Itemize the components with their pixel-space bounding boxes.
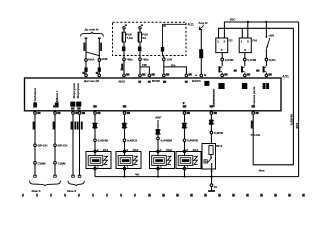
svg-text:0,5Ч: 0,5Ч — [269, 58, 275, 62]
svg-text:ВУ/W: ВУ/W — [152, 79, 160, 83]
svg-text:Форсунки: Форсунки — [76, 83, 80, 98]
inline connector — [263, 66, 267, 72]
svg-text:2: 2 — [160, 148, 162, 152]
junction dot — [265, 21, 267, 23]
off-page arrow label — [198, 21, 208, 25]
svg-text:2: 2 — [97, 148, 99, 152]
svg-text:А11: А11 — [188, 23, 194, 27]
wire colour label — [127, 57, 133, 61]
svg-text:ГЛ: ГЛ — [229, 39, 233, 43]
injector УА4 label — [193, 148, 199, 152]
BT4 ground wire — [210, 169, 213, 190]
ECU internal rotated label col 2 — [55, 90, 59, 106]
svg-text:0,5РЖ: 0,5РЖ — [214, 131, 223, 135]
bus wire labels — [135, 169, 265, 177]
node circle right — [98, 59, 101, 62]
svg-text:0,4ЧБМ: 0,4ЧБМ — [161, 139, 173, 143]
ECU internal rotated label col 1 — [33, 88, 37, 104]
wire colour label — [251, 133, 261, 137]
feed-through pin in fusebox — [163, 25, 165, 27]
svg-text:Главное реле: Главное реле — [252, 86, 256, 107]
relay K2 pin numbers — [241, 40, 249, 53]
svg-text:0,5ЖЧК: 0,5ЖЧК — [290, 114, 294, 125]
switch drop — [265, 22, 267, 36]
relay K1 pin numbers — [217, 40, 225, 53]
injector feed wire H — [182, 114, 188, 151]
svg-text:НАМ: НАМ — [100, 57, 107, 61]
svg-text:ЧБк: ЧБк — [143, 57, 149, 61]
wire colour label — [247, 58, 256, 62]
rotated label outer vertical — [295, 123, 299, 129]
battery 30 line — [224, 22, 298, 38]
svg-text:А51: А51 — [282, 74, 289, 78]
svg-text:+В0: +В0 — [268, 34, 274, 38]
wire B connector labels — [58, 144, 69, 166]
injector УА2 label — [133, 148, 139, 152]
wire B rotated label — [53, 122, 55, 130]
ECU internal rotated label col 3 — [72, 83, 76, 98]
wire A from ECU pin — [34, 114, 37, 177]
wire C rotated label right — [74, 122, 76, 130]
svg-text:СШМ: СШМ — [58, 161, 66, 165]
inline connector — [218, 66, 222, 72]
svg-text:30С: 30С — [230, 17, 236, 21]
fuse FU5 pin — [139, 25, 143, 29]
wire C rotated label — [71, 122, 73, 130]
svg-text:ПЧ: ПЧ — [171, 63, 175, 67]
inline connector — [241, 66, 245, 72]
ignition feed line — [219, 28, 294, 38]
BT4 feed colour label — [214, 131, 223, 135]
injector УА2 — [116, 148, 141, 170]
node circle left — [85, 59, 88, 62]
rotated wire label right — [100, 43, 102, 52]
ECU top pin circles — [85, 74, 268, 77]
wire colour label — [225, 58, 234, 62]
injector feed wire F — [122, 114, 128, 151]
ECU internal marks — [138, 81, 188, 83]
inline connector block on X4 — [199, 49, 203, 58]
svg-text:ЧБк: ЧБк — [127, 57, 133, 61]
svg-text:Дc web N: Дc web N — [85, 27, 100, 31]
svg-text:Инж 8: Инж 8 — [67, 189, 76, 193]
pin letter labels — [195, 73, 207, 77]
svg-text:СШМ: СШМ — [38, 161, 46, 165]
svg-text:ЧН: ЧН — [135, 173, 140, 177]
relay K1 box — [216, 38, 228, 53]
ECU internal connector squares — [218, 83, 269, 89]
wire G colour label — [161, 139, 173, 143]
relay K2 box — [239, 38, 251, 53]
svg-text:УА4: УА4 — [193, 148, 199, 152]
relay K2 pin1 drop — [241, 28, 243, 38]
fuse FU5 body — [138, 29, 141, 47]
svg-text:ПН: ПН — [252, 39, 257, 43]
svg-text:7,5А: 7,5А — [126, 36, 133, 40]
feed-through wire split to two ECU pins — [163, 56, 187, 75]
wire A rotated label — [33, 122, 35, 130]
svg-text:а: а — [195, 73, 197, 77]
injector УА1 — [86, 148, 111, 170]
ECU box A51 — [25, 78, 282, 111]
injector feed wire E — [92, 114, 98, 151]
fuse FU6 pin — [123, 25, 127, 29]
svg-text:0,5ЧБ: 0,5ЧБ — [247, 58, 256, 62]
wire — [98, 61, 100, 67]
ECU bottom pin labels — [37, 112, 258, 114]
svg-text:12Н: 12Н — [166, 57, 172, 61]
svg-text:УА3: УА3 — [166, 148, 172, 152]
svg-text:УА1: УА1 — [103, 148, 109, 152]
fusebox internal partition — [163, 24, 187, 55]
svg-text:МАУС: МАУС — [192, 79, 202, 83]
rotated wire label left — [83, 43, 85, 52]
injector УА4 — [176, 148, 201, 170]
ECU bottom internal pin numbers — [33, 105, 255, 109]
fuse FU6 body — [122, 29, 125, 47]
fusebox label A11 — [188, 23, 194, 27]
svg-text:ПВ: ПВ — [142, 63, 147, 67]
fuse FU6 connector block — [122, 47, 126, 52]
wire F colour label — [127, 139, 137, 143]
wire C from ECU pin — [72, 114, 75, 177]
sensor wire right — [98, 38, 101, 59]
svg-text:NО2: NО2 — [119, 79, 126, 83]
ECU internal rotated label pump — [211, 89, 215, 107]
module BT4 box — [202, 144, 216, 170]
brace under wires C D — [68, 181, 84, 186]
svg-text:УА2: УА2 — [133, 148, 139, 152]
ECU internal pin number blobs — [33, 102, 81, 108]
ECU bottom pin circles — [34, 112, 255, 115]
svg-text:1: 1 — [127, 165, 129, 169]
ECU internal rotated label right — [252, 86, 256, 107]
svg-text:1: 1 — [217, 40, 219, 44]
fuse FU5 connector block — [138, 47, 142, 52]
rotated label on right output — [251, 121, 253, 129]
wire colour label — [166, 57, 175, 67]
svg-text:10: 10 — [214, 185, 218, 189]
injector УА3 ground stub — [157, 170, 159, 177]
svg-text:5: 5 — [244, 48, 246, 52]
svg-text:Бензонасос: Бензонасос — [211, 89, 215, 107]
wire D rotated label — [81, 122, 83, 130]
fuse FU5 value label — [142, 32, 148, 40]
source label AVG — [155, 116, 161, 123]
ECU top pin numbers — [82, 68, 271, 75]
sensor caption — [85, 27, 100, 31]
wire colour labels — [88, 57, 108, 62]
svg-text:2: 2 — [186, 148, 188, 152]
switch blade diagonal — [86, 52, 99, 56]
ignition switch label — [268, 34, 274, 38]
svg-text:0,45ЧБ: 0,45ЧБ — [98, 139, 109, 143]
relay K1 pin2 drop — [247, 22, 249, 38]
svg-text:Асд N: Асд N — [198, 21, 208, 25]
svg-text:ВР-СН: ВР-СН — [38, 144, 49, 148]
svg-text:УЧ-СН: УЧ-СН — [251, 133, 261, 137]
bus junction dots — [124, 176, 213, 178]
fuse FU6 value label — [126, 32, 134, 40]
wire — [244, 73, 246, 75]
ECU internal connector square X4 — [204, 81, 209, 86]
off-page arrow — [199, 25, 203, 29]
outer right vertical 30 line — [298, 22, 300, 177]
ECU internal labels under top pins — [84, 79, 202, 84]
svg-text:0,45РЖ: 0,45РЖ — [187, 139, 198, 143]
BT4 feed wire — [209, 114, 215, 143]
label Inj 8 — [67, 189, 76, 193]
sensor wire left — [85, 38, 88, 59]
ignition switch blade — [266, 36, 270, 49]
svg-text:ВР-СН: ВР-СН — [58, 144, 69, 148]
injector УА1 ground stub — [94, 170, 96, 177]
common ground bus — [95, 176, 299, 178]
wire colour label — [142, 57, 149, 67]
junction dot — [247, 21, 249, 23]
wire B from ECU pin — [54, 114, 57, 177]
ground label — [214, 185, 218, 189]
injector feed wire G — [155, 122, 161, 151]
relay output wire — [221, 53, 224, 67]
rotated label inner vertical — [290, 114, 294, 125]
svg-text:0,5ЧБ: 0,5ЧБ — [225, 58, 234, 62]
ECU internal arrow mark — [182, 102, 185, 104]
svg-text:Инж 5: Инж 5 — [32, 189, 41, 193]
wire — [221, 73, 223, 75]
ECU right output wire — [253, 28, 293, 165]
connector block right — [98, 67, 101, 72]
svg-text:3: 3 — [221, 48, 223, 52]
wire — [85, 72, 87, 74]
injector УА1 label — [103, 148, 109, 152]
svg-text:АНА: АНА — [88, 58, 95, 62]
connector block left — [84, 67, 87, 72]
wire — [85, 61, 87, 67]
wire A connector labels — [38, 144, 49, 166]
injector УА3 — [150, 148, 175, 170]
relay output wire — [244, 53, 247, 67]
label 30C — [230, 17, 236, 21]
svg-text:Датчик (N: Датчик (N — [84, 79, 100, 83]
relay K1 label — [229, 39, 233, 43]
wire D rotated label left — [77, 122, 79, 130]
label Inj 5 — [32, 189, 41, 193]
wire — [265, 73, 267, 75]
wire H colour label — [187, 139, 198, 143]
svg-text:1: 1 — [97, 165, 99, 169]
wire FU6 to ECU — [123, 51, 126, 74]
wire colour label — [269, 58, 275, 62]
svg-text:1: 1 — [241, 40, 243, 44]
switch output wire — [265, 49, 268, 66]
svg-text:1: 1 — [160, 165, 162, 169]
svg-text:ВГ4: ВГ4 — [216, 144, 222, 148]
fusebox A11 dashed outline — [113, 22, 187, 55]
wire X4 to ECU — [200, 30, 202, 75]
grid reference numbers — [22, 194, 305, 197]
wire E colour label — [98, 139, 109, 143]
feed-through connector block — [161, 47, 164, 52]
svg-text:30Ч: 30Ч — [295, 123, 299, 129]
brace under wires A B — [30, 181, 61, 186]
injector УА4 ground stub — [184, 170, 186, 177]
wire — [98, 72, 100, 74]
module BT4 label — [216, 144, 222, 148]
svg-text:3: 3 — [247, 40, 249, 44]
relay K2 label — [252, 39, 257, 43]
svg-text:В ШАНенз: В ШАНенз — [33, 88, 37, 104]
svg-text:2: 2 — [126, 148, 128, 152]
svg-text:1: 1 — [187, 165, 189, 169]
svg-text:2: 2 — [224, 40, 226, 44]
ground symbol — [208, 190, 215, 192]
brace over sensor wires — [81, 32, 104, 37]
wire D from ECU pin — [78, 114, 81, 177]
injector УА2 ground stub — [124, 170, 126, 177]
ECU label A51 — [282, 74, 289, 78]
injector УА3 label — [166, 148, 172, 152]
svg-text:Ине: Ине — [259, 169, 265, 173]
svg-text:0,45СЗ: 0,45СЗ — [127, 139, 137, 143]
ECU internal rotated label col 4 — [76, 83, 80, 98]
wire FU5 split to two ECU pins — [139, 51, 150, 74]
rotated gauge label — [121, 64, 123, 70]
